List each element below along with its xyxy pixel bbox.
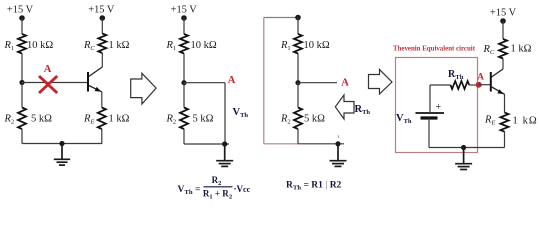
wire RE to rail (circuit 4)	[504, 132, 506, 148]
resistor R1 (10 k) circuit 2	[180, 34, 188, 54]
svg-text:1 kΩ: 1 kΩ	[109, 114, 130, 125]
ground junction dot circuit 1	[59, 141, 64, 146]
resistor RC (1 k) circuit 1	[98, 34, 106, 54]
resistor RE (1 k) circuit 4	[501, 113, 509, 132]
junction dot node (circuit 2)	[181, 80, 186, 85]
wire supply to RC	[101, 18, 103, 34]
svg-text:A: A	[477, 73, 484, 83]
wire R2 to rail (circuit 3)	[297, 129, 299, 144]
svg-text:10 kΩ: 10 kΩ	[304, 40, 330, 51]
resistor RTh (horizontal)	[451, 81, 470, 89]
resistor R2 (5 k) circuit 2	[180, 108, 188, 130]
wire node to R2 (circuit 3)	[297, 83, 299, 108]
bottom rail circuit 4	[429, 147, 505, 149]
wire node to R2	[21, 83, 23, 108]
wire battery minus down	[428, 118, 430, 148]
wire emitter to RE	[101, 92, 103, 108]
junction dot node (circuit 3)	[295, 80, 300, 85]
ground junction dot circuit 4	[461, 145, 466, 150]
ground junction dot circuit 3	[335, 141, 340, 146]
formula VTh = R2/(R1+R2) Vcc	[178, 175, 251, 201]
wire RE to rail	[101, 129, 103, 144]
wire top node to R1 (circuit 3)	[297, 18, 299, 35]
junction dot node (circuit 1)	[19, 80, 24, 85]
svg-text:10 kΩ: 10 kΩ	[191, 40, 217, 51]
svg-text:1 kΩ: 1 kΩ	[109, 40, 130, 51]
wire RC to collector	[101, 53, 103, 67]
open-circuit measuring wire (circuit 2)	[224, 83, 226, 144]
svg-text:+15 V: +15 V	[490, 8, 517, 19]
wire node to terminal A (circuit 2)	[184, 82, 225, 84]
wire RTh to node A	[469, 84, 478, 86]
bottom rail circuit 1	[22, 143, 102, 145]
top node dot (circuit 3)	[295, 15, 301, 21]
block arrow separator 2	[369, 70, 393, 95]
svg-text:5 kΩ: 5 kΩ	[304, 114, 325, 125]
svg-text:·Vcc: ·Vcc	[234, 184, 251, 194]
supply node dot (circuit 1, collector)	[100, 15, 106, 21]
wire battery plus up	[429, 85, 431, 113]
wire supply to RC (circuit 4)	[502, 21, 504, 39]
ground symbol circuit 4	[455, 148, 472, 170]
red X break mark	[39, 76, 57, 93]
resistor R1 (10 k) circuit 3	[294, 34, 302, 54]
resistor RE (1 k) circuit 1	[98, 108, 106, 130]
resistor RC (1 k) circuit 4	[499, 39, 507, 59]
svg-text:+: +	[436, 102, 442, 113]
svg-text:+15 V: +15 V	[171, 5, 198, 16]
ground junction dot circuit 2	[222, 141, 227, 146]
svg-text:10 kΩ: 10 kΩ	[27, 40, 53, 51]
wire emitter to RE (circuit 4)	[504, 94, 506, 113]
shorted-source wire (red) bottom segment	[264, 143, 298, 145]
shorted-source wire (red) left segment	[263, 18, 265, 144]
ground symbol circuit 3	[330, 144, 347, 167]
Thevenin box outline	[396, 58, 478, 153]
svg-text:A: A	[228, 75, 236, 86]
terminal stub tick (circuit 3)	[338, 135, 340, 138]
wire node to terminal A (circuit 3)	[298, 82, 337, 84]
resistor R2 (5 k) circuit 1	[18, 108, 26, 130]
wire R2 to rail (circuit 2)	[183, 129, 185, 144]
block arrow separator 1	[131, 73, 156, 104]
wire supply to R1 (circuit 2)	[183, 18, 185, 34]
svg-text:5 kΩ: 5 kΩ	[193, 114, 214, 125]
supply node dot (circuit 2)	[181, 15, 187, 21]
svg-text:1 kΩ: 1 kΩ	[511, 44, 532, 55]
svg-text:1 kΩ: 1 kΩ	[513, 116, 538, 127]
resistor R2 (5 k) circuit 3	[294, 108, 302, 130]
battery VTh	[416, 102, 445, 118]
resistor R1 (10 k) circuit 1	[18, 34, 26, 54]
transistor Q1 circuit 1	[88, 67, 102, 92]
wire node to transistor base	[22, 82, 88, 84]
svg-text:5 kΩ: 5 kΩ	[31, 114, 52, 125]
bottom rail circuit 2	[184, 143, 229, 145]
svg-text:Thevenin Equivalent circuit: Thevenin Equivalent circuit	[393, 44, 475, 53]
wire battery to RTh resistor	[430, 84, 451, 86]
wire R1 to node (circuit 3)	[297, 54, 299, 83]
svg-text:+15 V: +15 V	[88, 5, 115, 16]
shorted-source wire (red) top segment	[264, 17, 298, 19]
wire RC to collector (circuit 4)	[502, 59, 504, 70]
supply node dot (circuit 4)	[500, 18, 506, 24]
wire R1 to node	[21, 54, 23, 83]
wire R1 to node (circuit 2)	[183, 54, 185, 83]
transistor Q1 circuit 4	[491, 69, 505, 94]
wire supply to R1	[21, 18, 23, 34]
svg-text:A: A	[341, 78, 349, 89]
bottom rail circuit 3	[298, 143, 344, 145]
wire A to base	[479, 84, 491, 86]
wire R2 to bottom rail	[21, 129, 23, 144]
RTh looking-in block arrow	[335, 95, 354, 119]
ground symbol circuit 1	[54, 144, 70, 166]
node A red dot	[476, 82, 482, 88]
svg-text:A: A	[44, 64, 52, 75]
supply node dot (circuit 1, divider)	[19, 15, 25, 21]
wire node to R2 (circuit 2)	[183, 83, 185, 108]
ground symbol circuit 2	[216, 144, 233, 166]
svg-text:+15 V: +15 V	[7, 5, 34, 16]
